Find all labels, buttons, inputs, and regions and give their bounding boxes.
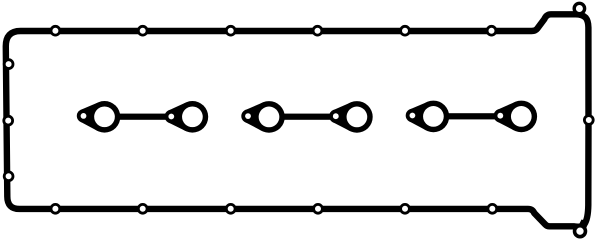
bolt hole bottom 2 — [138, 204, 147, 213]
spark tube gasket 1 body — [77, 101, 208, 133]
bolt hole top 6 — [487, 26, 496, 35]
tab bolt hole bottom right — [575, 226, 586, 237]
bolt hole bottom 4 — [314, 204, 323, 213]
bolt hole left 3 — [4, 172, 13, 181]
bolt hole top 1 — [51, 26, 60, 35]
bolt hole left 1 — [4, 60, 13, 69]
bolt hole right edge — [584, 116, 593, 125]
spark tube gasket 3 body — [406, 101, 537, 133]
bolt hole top 4 — [313, 26, 322, 35]
bolt hole bottom 3 — [226, 204, 235, 213]
tab bolt hole top right — [574, 3, 584, 13]
bolt hole top 2 — [138, 26, 147, 35]
bolt hole left 2 — [4, 116, 13, 125]
bolt hole bottom 5 — [401, 204, 410, 213]
bolt hole top 5 — [401, 26, 410, 35]
tab bolt hole bottom right joint patch — [578, 220, 589, 232]
bolt hole top 3 — [226, 26, 235, 35]
spark tube gasket 2 body — [241, 101, 372, 133]
bolt hole bottom 6 — [488, 204, 497, 213]
bolt hole bottom 1 — [51, 204, 60, 213]
